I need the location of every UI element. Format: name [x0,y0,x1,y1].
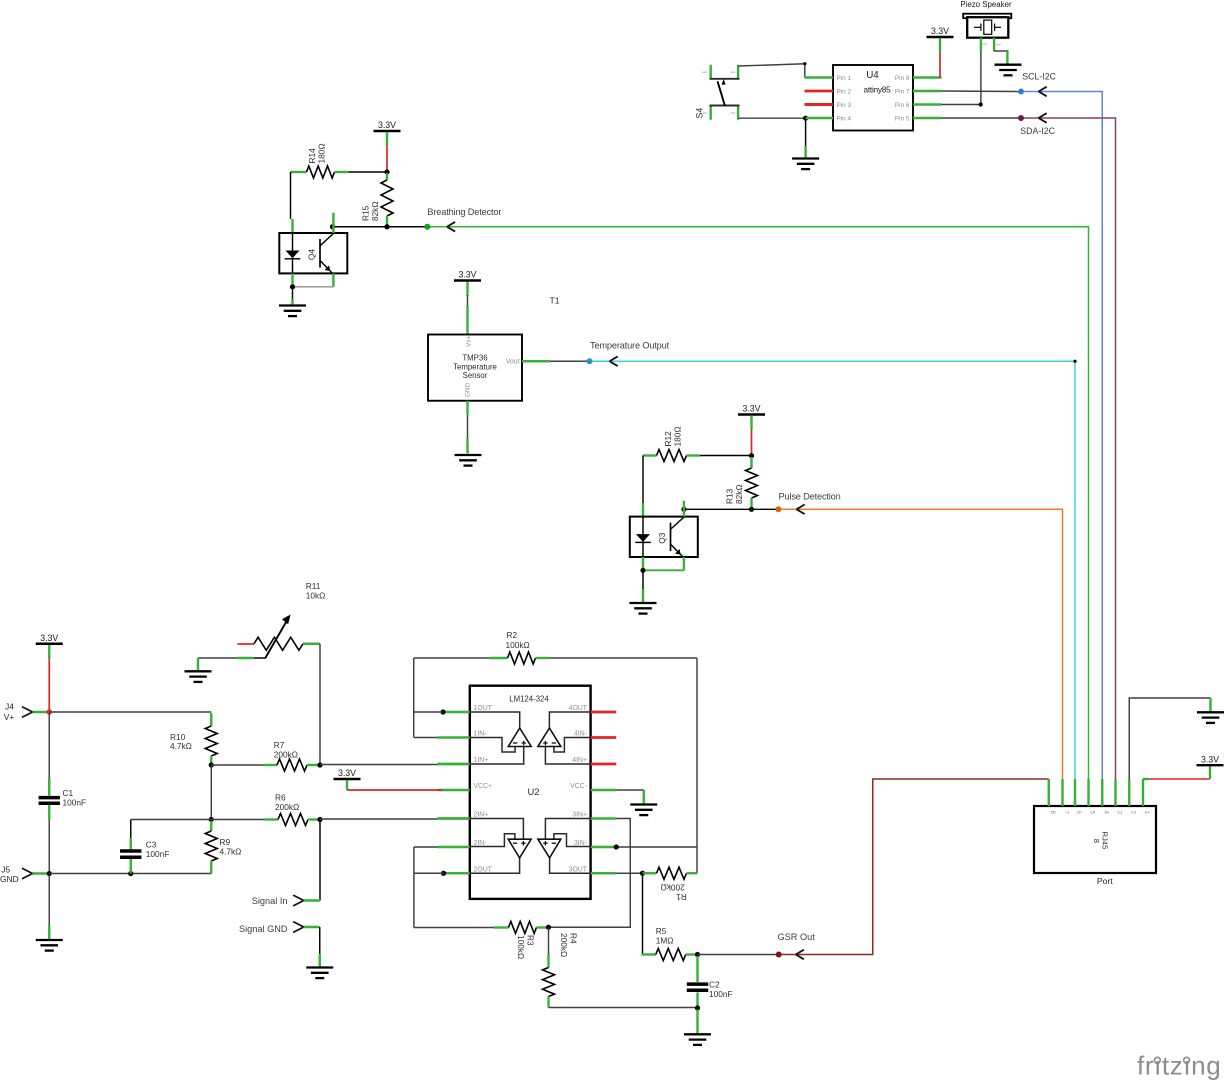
svg-text:4: 4 [1102,811,1109,815]
svg-text:R1: R1 [676,892,687,902]
svg-text:4IN-: 4IN- [574,731,587,738]
svg-text:Vout: Vout [506,359,520,366]
svg-text:100nF: 100nF [709,989,733,999]
svg-text:3.3V: 3.3V [931,26,949,36]
svg-text:1OUT: 1OUT [474,705,493,712]
svg-text:Pin 4: Pin 4 [837,115,852,122]
svg-text:6: 6 [1075,811,1082,815]
svg-text:3.3V: 3.3V [378,120,396,130]
svg-text:1IN+: 1IN+ [474,757,489,764]
svg-text:GSR Out: GSR Out [778,932,816,942]
svg-text:Piezo Speaker: Piezo Speaker [960,0,1012,9]
svg-text:3.3V: 3.3V [742,404,760,414]
svg-text:VCC-: VCC- [570,783,587,790]
svg-text:Pin 1: Pin 1 [837,75,852,82]
svg-text:1: 1 [1143,811,1150,815]
svg-text:Q3: Q3 [657,532,667,543]
svg-text:3IN+: 3IN+ [572,812,587,819]
svg-text:3.3V: 3.3V [1201,754,1219,764]
svg-text:82kΩ: 82kΩ [734,484,744,504]
svg-text:Pin 3: Pin 3 [837,102,852,109]
svg-text:R14: R14 [307,148,317,164]
svg-text:1IN-: 1IN- [474,731,487,738]
svg-text:3: 3 [1116,811,1123,815]
svg-text:U2: U2 [528,786,540,797]
svg-text:4.7kΩ: 4.7kΩ [170,741,192,751]
svg-text:Pin 6: Pin 6 [895,102,910,109]
svg-text:V+: V+ [4,712,15,722]
svg-text:4IN+: 4IN+ [572,757,587,764]
svg-text:8: 8 [1049,811,1056,815]
svg-text:Sensor: Sensor [463,371,488,380]
svg-text:2IN+: 2IN+ [474,812,489,819]
svg-text:Pin 8: Pin 8 [895,75,910,82]
svg-text:GND: GND [0,874,19,884]
svg-text:Temperature Output: Temperature Output [590,341,670,351]
svg-text:frıtzıng: frıtzıng [1137,1051,1221,1081]
svg-text:T1: T1 [550,296,560,306]
svg-text:Signal In: Signal In [252,896,288,906]
svg-text:C2: C2 [709,979,720,989]
svg-text:4OUT: 4OUT [569,705,588,712]
svg-text:3.3V: 3.3V [458,270,476,280]
svg-text:SCL-I2C: SCL-I2C [1022,72,1056,82]
svg-text:Pin 5: Pin 5 [895,115,910,122]
svg-text:Pin 7: Pin 7 [895,88,910,95]
svg-text:Q4: Q4 [307,249,317,260]
svg-text:1MΩ: 1MΩ [656,935,674,945]
svg-text:R12: R12 [663,431,673,447]
svg-text:R2: R2 [507,630,518,640]
svg-text:100nF: 100nF [63,798,87,808]
svg-text:100nF: 100nF [146,849,170,859]
svg-text:7: 7 [1063,811,1070,815]
svg-text:Breathing Detector: Breathing Detector [427,207,501,217]
svg-text:3OUT: 3OUT [569,866,588,873]
svg-text:LM124-324: LM124-324 [509,695,549,704]
svg-text:J4: J4 [5,702,14,712]
svg-text:TMP36: TMP36 [462,354,487,363]
svg-text:100kΩ: 100kΩ [506,640,530,650]
svg-text:200kΩ: 200kΩ [275,802,299,812]
svg-text:R15: R15 [361,205,371,221]
svg-text:U4: U4 [866,70,879,81]
svg-text:VCC+: VCC+ [474,783,493,790]
svg-text:180Ω: 180Ω [673,426,683,446]
svg-text:3.3V: 3.3V [40,633,58,643]
svg-text:8: 8 [1092,839,1101,843]
svg-text:2OUT: 2OUT [474,866,493,873]
svg-text:R13: R13 [725,488,735,504]
svg-text:Vs+: Vs+ [466,336,473,347]
svg-text:C3: C3 [146,840,157,850]
svg-text:Pulse Detection: Pulse Detection [779,491,841,501]
svg-text:Signal GND: Signal GND [239,924,288,934]
svg-text:SDA-I2C: SDA-I2C [1020,126,1055,136]
svg-text:10kΩ: 10kΩ [306,590,326,600]
svg-text:attiny85: attiny85 [863,85,891,95]
svg-text:3.3V: 3.3V [338,768,356,778]
svg-text:100kΩ: 100kΩ [516,935,526,959]
svg-text:GND: GND [465,382,472,397]
svg-text:200kΩ: 200kΩ [274,750,298,760]
svg-text:Pin 2: Pin 2 [837,88,852,95]
svg-text:Port: Port [1097,876,1113,886]
svg-text:C1: C1 [63,788,74,798]
svg-text:S4: S4 [695,108,705,119]
svg-text:200kΩ: 200kΩ [660,882,684,892]
svg-text:R3: R3 [526,935,536,946]
svg-text:5: 5 [1089,811,1096,815]
svg-text:200kΩ: 200kΩ [559,933,569,957]
svg-text:2: 2 [1129,811,1136,815]
svg-text:82kΩ: 82kΩ [370,201,380,221]
svg-text:R4: R4 [569,933,579,944]
svg-text:4.7kΩ: 4.7kΩ [220,847,242,857]
svg-text:180Ω: 180Ω [317,143,327,163]
